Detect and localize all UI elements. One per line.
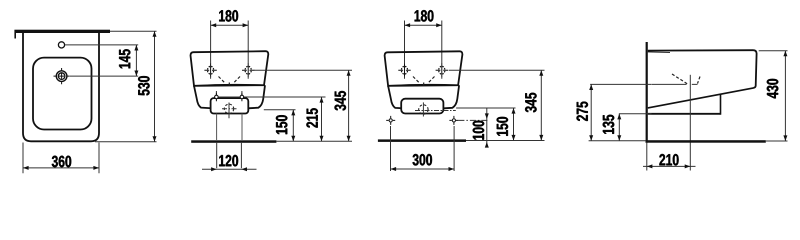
dim 120 extension lines — [216, 143, 218, 168]
drain centerline ticks — [54, 68, 70, 84]
dim 345 text view3 — [525, 93, 537, 113]
bolt stem dashes — [216, 91, 242, 95]
dim 430 line — [784, 51, 786, 141]
funnel center dash — [228, 83, 230, 87]
dim 150 text view3 — [497, 117, 509, 136]
floor line view2 — [191, 140, 276, 143]
wall bar left end tick — [14, 33, 16, 39]
dim 345 line view2 — [348, 70, 350, 141]
inner rim thin line — [648, 51, 670, 54]
dim 150 line view2 — [292, 110, 294, 142]
vertical lines box to floor — [216, 114, 218, 141]
dim 530 text — [138, 76, 150, 95]
body outline — [191, 51, 269, 86]
drain cross circle — [224, 104, 233, 113]
bolt circle left — [215, 95, 219, 99]
dim 360 text — [52, 156, 71, 168]
dim 180 line — [405, 24, 442, 26]
drain centerlines — [422, 102, 424, 116]
bolt circle right — [240, 95, 244, 99]
dim 145 line — [135, 45, 137, 76]
funnel horizontal centerline — [652, 83, 698, 85]
wall line — [646, 42, 648, 143]
faucet reference line — [65, 44, 138, 46]
wall extension below floor — [646, 143, 648, 171]
hole extension to 345 — [449, 69, 545, 71]
dim 135 text — [603, 115, 615, 134]
siphon cover bottom — [648, 113, 721, 115]
underside diagonal line — [648, 88, 754, 108]
wall anchor cross left — [389, 119, 392, 122]
275 reference line — [590, 83, 652, 85]
floor extension to dims — [276, 140, 352, 142]
dim 145 text — [119, 49, 130, 68]
funnel center dash — [423, 83, 425, 87]
skirt outline — [388, 85, 459, 109]
bowl inner outline — [33, 58, 92, 130]
hidden dashes below holes — [405, 76, 442, 79]
dim 180 line — [211, 24, 249, 26]
dim 100 line — [486, 108, 488, 148]
bolt cross ticks — [216, 93, 242, 102]
drain outer circle — [56, 71, 67, 82]
floor extension to dims — [466, 140, 545, 142]
mounting hole left — [401, 66, 407, 74]
skirt bottom extension to 150 — [264, 109, 296, 111]
dim 180 extension lines — [404, 21, 406, 65]
drain center line — [689, 75, 691, 171]
hidden funnel dashes side — [672, 74, 700, 84]
drain inner circle — [58, 73, 65, 80]
dim 300 extension lines — [390, 126, 392, 171]
mounting hole right — [439, 66, 445, 74]
seam line — [194, 85, 265, 86]
floor extension to 430 — [766, 140, 788, 142]
seam line — [388, 85, 459, 86]
hidden funnel dashes — [219, 77, 241, 83]
hidden funnel dashes — [413, 77, 435, 83]
dim 430 text — [767, 79, 779, 99]
drain box — [401, 99, 443, 114]
body profile outline — [648, 50, 757, 88]
top extension to 430 — [759, 50, 788, 52]
hidden dashes below holes — [211, 76, 249, 79]
bottom extension line to 530 — [95, 141, 157, 143]
dim 215 line — [321, 97, 323, 141]
wall anchor cross right — [452, 119, 455, 122]
cross to 100 dash-dot line — [458, 119, 488, 121]
dim 300 line — [391, 168, 455, 170]
dim 100 text — [473, 121, 485, 140]
drain box — [211, 98, 249, 113]
bolt connecting line — [218, 96, 240, 98]
dim 180 text — [219, 10, 238, 22]
bolt extension to 215 — [244, 96, 326, 98]
dim 180 extension lines — [210, 21, 212, 65]
dim 300 text — [413, 154, 432, 166]
faucet hole — [58, 42, 64, 48]
drain cross circle — [419, 105, 428, 114]
skirt outline — [194, 85, 265, 109]
floor extension left — [589, 140, 646, 142]
mounting hole right — [245, 66, 251, 74]
skirt bottom extension to 150 — [456, 107, 515, 109]
siphon cover vertical — [720, 94, 722, 115]
dim 275 text — [577, 102, 589, 121]
dim 360 extension lines — [22, 143, 24, 174]
bidet outer rim outline — [23, 33, 99, 141]
drain centerlines — [228, 103, 230, 119]
wall bar — [14, 30, 110, 33]
hole extension to 345 — [254, 69, 352, 71]
dim 345 text view2 — [335, 91, 347, 111]
dim 210 text — [659, 154, 678, 166]
135 reference line — [619, 113, 652, 115]
dim 135 line — [618, 114, 620, 141]
dim 360 line — [23, 167, 99, 169]
dim 345 line view3 — [540, 70, 542, 140]
dim 150 text view2 — [276, 115, 288, 134]
drain reference line — [70, 75, 138, 77]
floor line view3 — [378, 139, 466, 142]
dim 120 text — [219, 155, 238, 167]
dim 215 text — [306, 108, 318, 127]
mounting hole left — [208, 66, 214, 74]
bar extension line to 530 — [110, 30, 157, 32]
dim 150 line view3 — [513, 108, 515, 141]
dim 275 line — [590, 84, 592, 140]
dim 120 line — [202, 168, 257, 170]
floor line view4 — [646, 140, 766, 143]
dim 530 line — [154, 31, 156, 142]
body outline — [385, 51, 463, 86]
dim 180 text view3 — [415, 10, 434, 22]
dim 210 line — [643, 165, 696, 167]
